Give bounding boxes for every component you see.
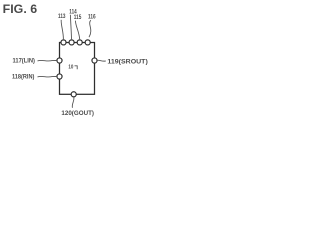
svg-text:113: 113	[58, 13, 66, 20]
pin 118 RIN terminal circle	[57, 74, 62, 79]
leader from 113 to its pin	[61, 20, 63, 39]
svg-text:116: 116	[88, 13, 96, 20]
leader from 118(RIN) to its pin	[38, 75, 57, 78]
leader from 117(LIN) to its pin	[38, 59, 57, 62]
leader hook for label 10	[75, 66, 78, 70]
leader from 116 to its pin	[89, 20, 91, 37]
leader from 120(GOUT) to its pin	[72, 97, 74, 108]
svg-text:10: 10	[68, 64, 73, 70]
pin 116 terminal circle	[85, 40, 90, 45]
pin 117 LIN terminal circle	[57, 58, 62, 63]
leader from 119(SROUT) to its pin	[97, 59, 106, 62]
pin 120 GOUT terminal circle	[71, 92, 76, 97]
svg-text:115: 115	[74, 14, 82, 21]
pin 113 terminal circle	[61, 40, 66, 45]
leader from 115 to its pin	[75, 21, 79, 40]
svg-text:117(LIN): 117(LIN)	[13, 57, 35, 64]
pin 119 SROUT terminal circle	[92, 58, 97, 63]
svg-text:120(GOUT): 120(GOUT)	[61, 110, 94, 117]
svg-text:118(RIN): 118(RIN)	[12, 73, 34, 80]
pin 115 terminal circle	[77, 40, 82, 45]
svg-text:FIG. 6: FIG. 6	[3, 2, 38, 16]
block 10 body	[60, 43, 95, 95]
pin 114 terminal circle	[69, 40, 74, 45]
svg-text:119(SROUT): 119(SROUT)	[107, 59, 147, 66]
leader from 114 to its pin	[70, 15, 71, 39]
